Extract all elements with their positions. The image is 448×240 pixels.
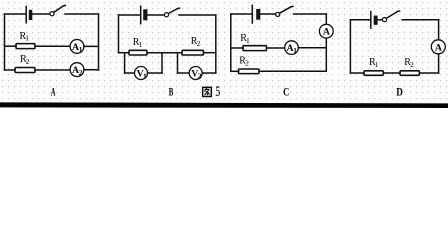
svg-text:A: A bbox=[435, 42, 442, 53]
wire: D R1 to R2 bbox=[383, 72, 400, 74]
svg-text:2: 2 bbox=[410, 60, 414, 69]
svg-text:1: 1 bbox=[293, 46, 297, 55]
wire: D R2 to right vertical bbox=[419, 72, 438, 74]
ammeter A1 bbox=[70, 40, 84, 54]
wire: C top left segment bbox=[231, 13, 252, 15]
svg-text:C: C bbox=[283, 86, 289, 98]
svg-text:5: 5 bbox=[215, 84, 220, 100]
wire: B top left segment bbox=[119, 14, 141, 16]
ammeter A2 bbox=[70, 63, 84, 77]
svg-text:1: 1 bbox=[139, 40, 143, 49]
svg-text:1: 1 bbox=[246, 36, 250, 45]
svg-text:A: A bbox=[51, 86, 56, 98]
svg-text:2: 2 bbox=[79, 68, 83, 77]
battery B_D bbox=[371, 12, 378, 28]
svg-text:B: B bbox=[169, 86, 174, 98]
wire: A top left segment bbox=[5, 13, 26, 15]
resistor R2 (C) bbox=[239, 69, 260, 74]
wire: B R1 to R2 bbox=[147, 52, 182, 54]
battery B_B bbox=[141, 6, 148, 23]
wire: V1 loop bottom right bbox=[148, 72, 163, 74]
svg-text:A: A bbox=[323, 27, 330, 38]
wire: A middle branch left bbox=[5, 45, 17, 47]
bottom rule bar bbox=[0, 102, 448, 108]
switch S_A bbox=[50, 5, 66, 15]
voltmeter V2 bbox=[189, 67, 202, 80]
wire: B left vertical bbox=[118, 15, 120, 53]
wire: D top left segment bbox=[350, 19, 370, 21]
meter label V1 bbox=[137, 68, 147, 80]
wire: C switch to right corner bbox=[294, 13, 327, 15]
switch S_B bbox=[164, 8, 179, 17]
resistor R1 (B) bbox=[129, 50, 147, 55]
wire: B battery to switch bbox=[148, 14, 165, 16]
battery B_C bbox=[252, 5, 260, 23]
label R1 (B) bbox=[133, 37, 143, 49]
battery B_A bbox=[26, 7, 32, 23]
svg-text:1: 1 bbox=[375, 60, 379, 69]
meter label A1 (C) bbox=[287, 43, 298, 55]
resistor R1 (D) bbox=[364, 71, 383, 76]
label R2 (D) bbox=[404, 57, 414, 69]
wire: A A1 to right vertical bbox=[84, 45, 99, 47]
meter label A2 bbox=[72, 65, 83, 77]
wire: B switch to right corner bbox=[179, 14, 216, 16]
ammeter A (D) bbox=[431, 40, 445, 54]
wire: B R2 to right vertical bbox=[204, 52, 216, 54]
switch S_D bbox=[382, 11, 399, 22]
wire: C right vertical bottom bbox=[325, 38, 327, 71]
wire: A right vertical bbox=[98, 14, 100, 70]
caption 图 5 (figure 5) bbox=[203, 84, 221, 100]
wire: D left vertical bbox=[349, 20, 351, 73]
wire: A switch to right corner bbox=[65, 13, 99, 15]
resistor R2 (A) bbox=[15, 68, 35, 73]
meter label A1 bbox=[72, 42, 83, 54]
svg-text:2: 2 bbox=[197, 39, 201, 48]
wire: V1 loop left vertical bbox=[124, 53, 126, 73]
wire: A bottom left bbox=[5, 69, 16, 71]
wire: V1 loop right vertical bbox=[161, 53, 163, 73]
wire: C battery to switch bbox=[260, 13, 275, 15]
resistor R1 (C) bbox=[243, 46, 267, 51]
svg-text:2: 2 bbox=[198, 71, 202, 80]
wire: C bottom left bbox=[231, 70, 239, 72]
wire: V2 loop left vertical bbox=[177, 53, 179, 73]
svg-text:2: 2 bbox=[245, 58, 249, 67]
meter label V2 bbox=[191, 68, 201, 80]
switch S_C bbox=[276, 6, 293, 16]
label R1 (C) bbox=[240, 33, 250, 45]
ammeter A (C main) bbox=[319, 24, 333, 38]
svg-text:1: 1 bbox=[143, 71, 147, 80]
wire: V1 loop bottom left bbox=[125, 72, 135, 74]
resistor R1 (A) bbox=[16, 44, 35, 49]
wire: A battery to switch bbox=[32, 13, 49, 15]
ammeter A1 (C) bbox=[285, 41, 299, 55]
label R1 (D) bbox=[369, 57, 379, 69]
wire: A A2 to right vertical bbox=[84, 69, 99, 71]
wire: A left vertical bbox=[4, 14, 6, 70]
svg-text:1: 1 bbox=[25, 34, 29, 43]
wire: V2 loop bottom left bbox=[178, 72, 190, 74]
label R1 (A) bbox=[20, 31, 30, 43]
wire: A R1 to A1 bbox=[35, 45, 70, 47]
wire: B main line left to R1 bbox=[119, 52, 130, 54]
voltmeter V1 bbox=[135, 67, 148, 80]
wire: C middle branch left bbox=[231, 47, 243, 49]
wire: V2 loop bottom right bbox=[202, 72, 216, 74]
resistor R2 (D) bbox=[400, 71, 419, 76]
wire: D switch to right corner bbox=[402, 19, 438, 21]
wire: C right vertical top bbox=[325, 14, 327, 24]
wire: D right vertical top bbox=[438, 20, 440, 40]
svg-text:1: 1 bbox=[79, 45, 83, 54]
svg-text:D: D bbox=[396, 86, 403, 98]
wire: C R2 to right vertical bbox=[259, 70, 326, 72]
label R2 (B) bbox=[191, 36, 201, 48]
svg-text:2: 2 bbox=[26, 57, 30, 66]
resistor R2 (B) bbox=[182, 50, 204, 55]
label R2 (C) bbox=[239, 55, 249, 67]
label R2 (A) bbox=[20, 54, 30, 66]
wire: C left vertical bbox=[230, 14, 232, 71]
wire: D bottom left bbox=[350, 72, 364, 74]
wire: D battery to switch bbox=[378, 19, 383, 21]
wire: B right vertical bbox=[215, 15, 217, 73]
wire: A R2 to A2 bbox=[35, 69, 70, 71]
wire: C R1 to A1 bbox=[267, 47, 285, 49]
wire: C A1 to right vertical bbox=[298, 47, 326, 49]
wire: D right vertical bottom bbox=[438, 54, 440, 73]
